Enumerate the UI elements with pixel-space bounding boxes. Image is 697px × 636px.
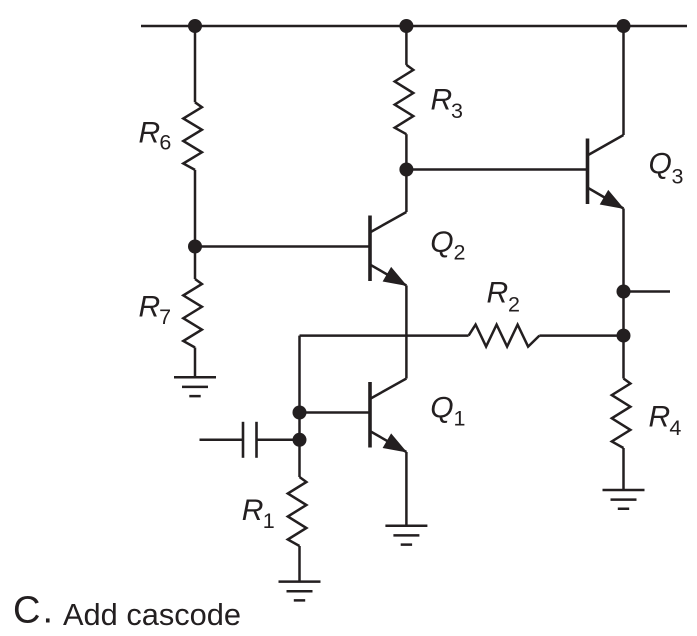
- svg-text:Q: Q: [430, 226, 453, 259]
- svg-text:7: 7: [159, 305, 171, 329]
- svg-text:Q: Q: [649, 148, 672, 181]
- svg-text:3: 3: [451, 99, 463, 123]
- svg-text:Q: Q: [430, 392, 453, 425]
- svg-text:R: R: [242, 494, 264, 527]
- svg-text:R: R: [649, 400, 671, 433]
- svg-text:R: R: [431, 84, 453, 117]
- svg-text:6: 6: [159, 131, 171, 155]
- svg-text:C.: C.: [13, 590, 55, 632]
- svg-text:R: R: [487, 277, 509, 310]
- svg-text:2: 2: [454, 241, 466, 265]
- svg-text:4: 4: [669, 416, 681, 440]
- svg-text:1: 1: [263, 509, 275, 533]
- svg-text:1: 1: [454, 407, 466, 431]
- svg-text:2: 2: [508, 292, 520, 316]
- svg-text:3: 3: [672, 164, 684, 188]
- svg-text:R: R: [139, 291, 161, 324]
- svg-text:Add cascode: Add cascode: [63, 597, 241, 632]
- svg-text:R: R: [139, 116, 161, 149]
